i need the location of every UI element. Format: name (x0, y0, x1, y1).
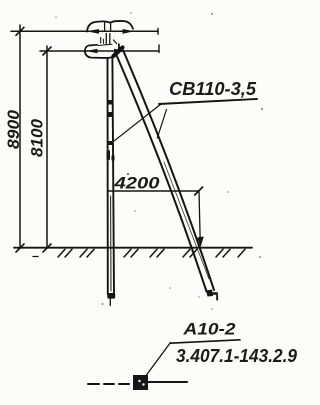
svg-text:3.407.1-143.2.9: 3.407.1-143.2.9 (176, 345, 298, 366)
svg-text:8900: 8900 (4, 109, 23, 149)
svg-text:СВ110-3,5: СВ110-3,5 (169, 79, 257, 99)
svg-text:8100: 8100 (28, 118, 47, 157)
svg-text:4200: 4200 (113, 174, 160, 193)
svg-text:А10-2: А10-2 (182, 321, 235, 339)
